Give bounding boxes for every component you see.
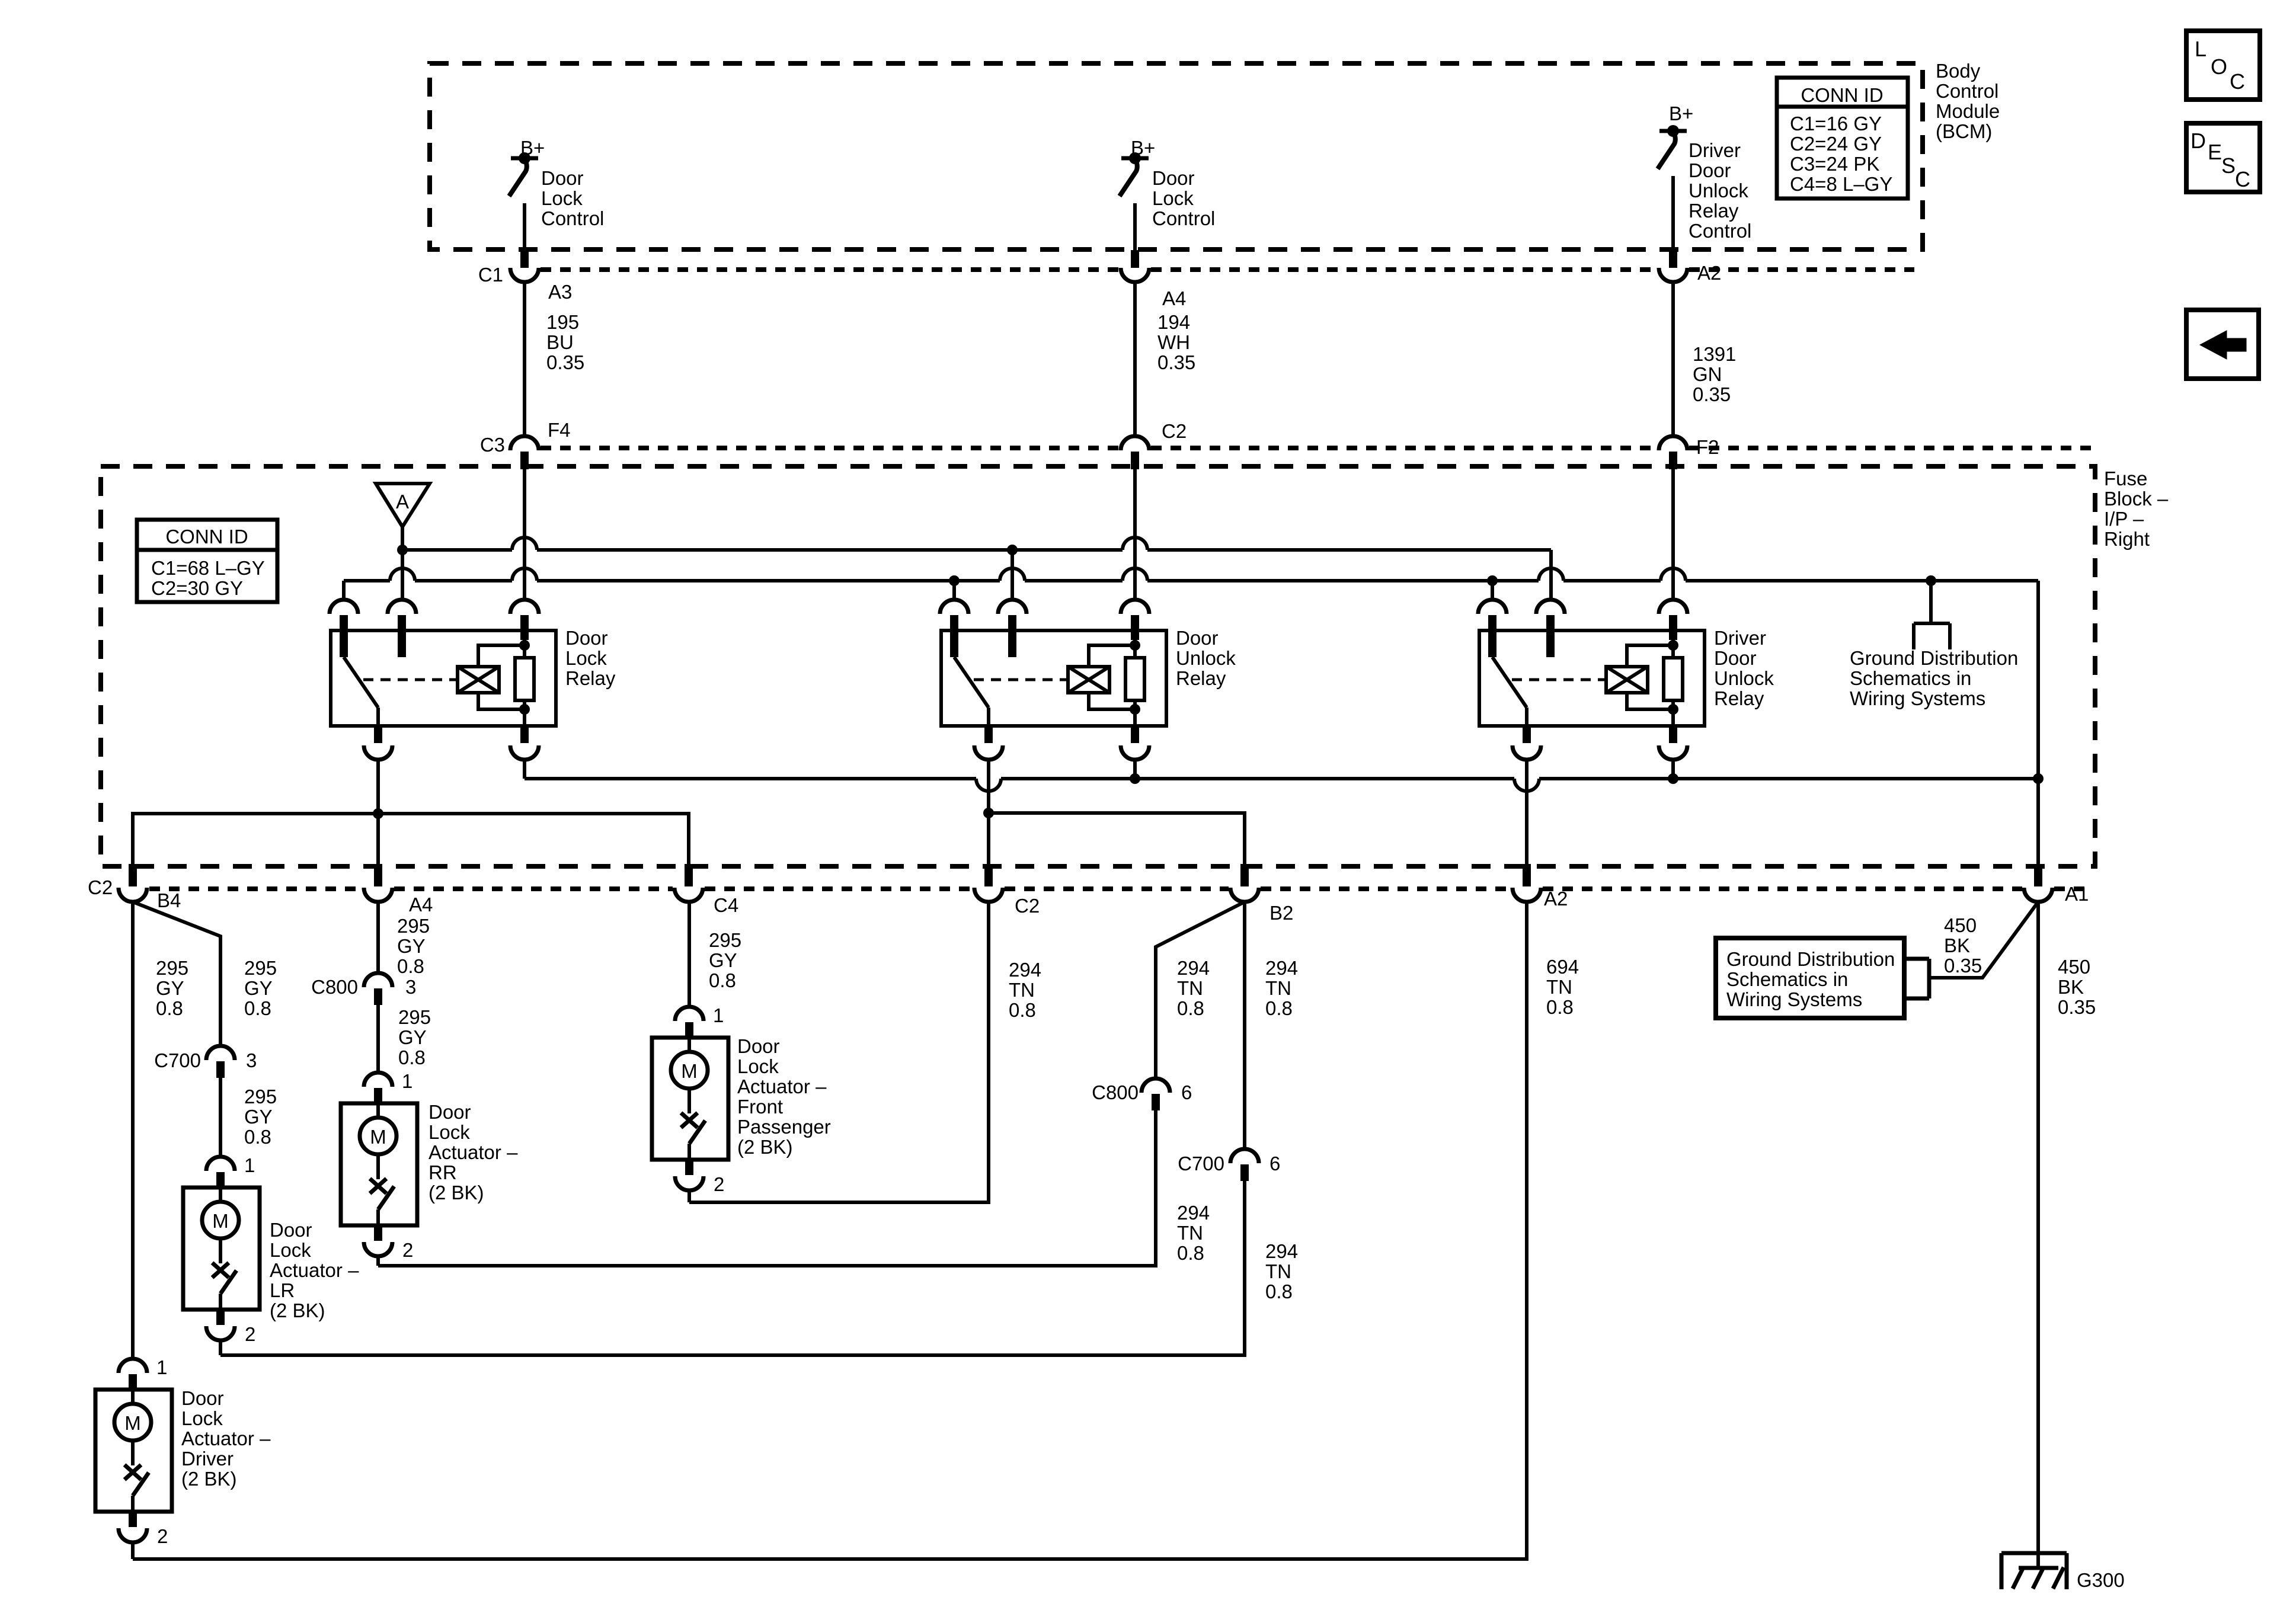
node: bus2 to relay2 pin1 — [949, 575, 960, 586]
svg-text:0.8: 0.8 — [1177, 1242, 1204, 1264]
svg-text:295: 295 — [397, 915, 430, 937]
svg-text:Door: Door — [565, 627, 608, 649]
wire branch C2/B4 riser — [133, 814, 378, 866]
svg-text:GY: GY — [156, 977, 184, 999]
wire bus2 right end down to A1 feeder — [2036, 581, 2040, 866]
svg-text:C2: C2 — [1162, 420, 1187, 442]
svg-text:(BCM): (BCM) — [1936, 120, 1992, 142]
svg-text:0.35: 0.35 — [546, 351, 584, 373]
svg-text:1391: 1391 — [1693, 343, 1736, 365]
svg-text:Actuator –: Actuator – — [270, 1259, 359, 1281]
node: bus3 relay3 coil — [1668, 773, 1678, 784]
wire col3 F2 to Driver Door Unlock Relay coil — [1671, 469, 1675, 600]
svg-text:Front: Front — [737, 1096, 783, 1118]
connector pin B2 (fuse bottom) — [1240, 864, 1249, 886]
svg-text:C2: C2 — [1015, 895, 1040, 917]
svg-text:0.8: 0.8 — [397, 955, 424, 977]
wire bus 2 (relay common) — [344, 579, 390, 582]
svg-text:2: 2 — [402, 1239, 413, 1261]
svg-text:Unlock: Unlock — [1176, 647, 1236, 669]
svg-text:Relay: Relay — [1176, 667, 1226, 689]
svg-text:(2 BK): (2 BK) — [737, 1136, 793, 1158]
connector C4 pin A2 (BCM bottom, col 3) — [1669, 250, 1677, 268]
svg-text:TN: TN — [1177, 1222, 1203, 1244]
wire 694 TN 0.8 (A2 to driver pin2 bus) — [133, 902, 1527, 1559]
svg-text:BK: BK — [1944, 934, 1970, 956]
svg-text:TN: TN — [1265, 977, 1291, 999]
svg-text:Body: Body — [1936, 60, 1981, 82]
svg-text:0.35: 0.35 — [2058, 996, 2096, 1018]
svg-text:Lock: Lock — [1152, 187, 1194, 209]
svg-text:Door: Door — [181, 1387, 224, 1409]
BCM C1/C2/C4 connector dotted line — [541, 267, 1119, 272]
svg-text:Relay: Relay — [1714, 687, 1764, 709]
Body Control Module (BCM) dashed box — [430, 63, 1923, 249]
node: bus3 to A1 feeder — [2033, 773, 2044, 784]
svg-text:295: 295 — [244, 957, 277, 979]
svg-text:Actuator –: Actuator – — [181, 1427, 271, 1449]
svg-text:0.8: 0.8 — [1009, 999, 1036, 1021]
svg-text:3: 3 — [405, 976, 416, 998]
connector pin C2 (fuse bottom) — [984, 864, 993, 886]
svg-text:694: 694 — [1546, 956, 1579, 978]
svg-text:BK: BK — [2058, 976, 2084, 998]
svg-text:C4=8 L–GY: C4=8 L–GY — [1790, 173, 1892, 195]
connector C2 pin A4 (BCM bottom, col 2) — [1131, 250, 1139, 268]
svg-text:(2 BK): (2 BK) — [270, 1299, 325, 1321]
svg-text:450: 450 — [1944, 914, 1977, 936]
node: bus2 to relay3 pin1 — [1487, 575, 1498, 586]
node: relay1 output junction — [373, 808, 383, 819]
svg-text:195: 195 — [546, 311, 579, 333]
connector C700 pin 6 — [1230, 1149, 1259, 1163]
svg-text:Door: Door — [1152, 167, 1195, 189]
wire relay2 coil bottom drop — [1133, 760, 1137, 779]
fuse top connector dotted line — [541, 446, 1119, 450]
svg-text:Door: Door — [541, 167, 584, 189]
wire 295 GY 0.8 (driver branch) — [131, 902, 135, 1359]
wire RR actuator pin2 down — [376, 1256, 380, 1266]
connector C2 pin B4 (fuse bottom) — [129, 864, 137, 886]
svg-text:M: M — [124, 1412, 141, 1434]
svg-text:Actuator –: Actuator – — [428, 1141, 518, 1163]
svg-text:Unlock: Unlock — [1714, 667, 1774, 689]
connector C1 pin A3 (BCM bottom, col 1) — [520, 250, 529, 268]
svg-text:GY: GY — [244, 1106, 273, 1128]
svg-text:C700: C700 — [1178, 1153, 1224, 1174]
DESC icon box — [2186, 123, 2260, 192]
svg-text:GY: GY — [709, 949, 737, 971]
svg-text:Block –: Block – — [2104, 488, 2169, 510]
svg-text:Right: Right — [2104, 528, 2150, 550]
svg-text:1: 1 — [713, 1004, 724, 1026]
svg-text:0.8: 0.8 — [1265, 1281, 1293, 1302]
node: junction triangle A / bus 1 — [397, 545, 408, 555]
svg-text:S: S — [2221, 153, 2236, 178]
svg-text:0.8: 0.8 — [398, 1046, 426, 1068]
connector pin C4 (fuse bottom) — [685, 864, 693, 886]
wire driver actuator pin2 to bus — [131, 1542, 135, 1559]
connector C800 pin 3 — [364, 973, 392, 987]
svg-text:C1=16 GY: C1=16 GY — [1790, 113, 1882, 135]
svg-text:L: L — [2195, 37, 2207, 61]
wire bus 1 (relay feed) — [402, 548, 512, 552]
wire branch to B2 — [989, 813, 1245, 866]
wire 195 BU 0.35 — [523, 282, 526, 437]
svg-text:GN: GN — [1693, 363, 1722, 385]
wire bus 3 (coil return) — [525, 777, 976, 780]
svg-text:LR: LR — [270, 1279, 295, 1301]
wire 294 TN 0.8 (C800-6 to RR pin2) — [378, 1110, 1156, 1266]
svg-text:194: 194 — [1157, 311, 1190, 333]
svg-text:WH: WH — [1157, 331, 1190, 353]
svg-text:CONN ID: CONN ID — [1801, 84, 1883, 106]
svg-text:B4: B4 — [157, 889, 181, 911]
fuse CONN ID table box — [137, 520, 277, 602]
svg-text:A4: A4 — [1162, 287, 1186, 309]
svg-text:294: 294 — [1265, 1240, 1298, 1262]
ground distribution bracket (bottom) — [1904, 957, 1929, 961]
connector C800 pin 6 — [1141, 1078, 1170, 1093]
node: bus3 relay2 coil — [1130, 773, 1140, 784]
wire 294 TN 0.8 (B2 to C700-6) — [1243, 902, 1246, 1149]
Fuse Block - I/P - Right dashed box — [101, 466, 2095, 866]
wire 295 GY 0.8 (C700 to LR) — [219, 1078, 222, 1157]
svg-text:294: 294 — [1177, 1202, 1210, 1224]
svg-text:C3=24 PK: C3=24 PK — [1790, 153, 1879, 175]
wire FP actuator pin2 down — [687, 1190, 691, 1202]
connector pin A2 (fuse bottom) — [1523, 864, 1531, 886]
motor M4 Door Lock Actuator - Driver — [119, 1359, 147, 1373]
svg-text:Schematics in: Schematics in — [1850, 667, 1971, 689]
svg-text:C3: C3 — [480, 434, 505, 456]
svg-text:Lock: Lock — [428, 1121, 470, 1143]
wire 294 TN 0.8 (C700-6 to LR pin2) — [220, 1181, 1245, 1355]
svg-text:6: 6 — [1181, 1081, 1192, 1103]
svg-text:Wiring Systems: Wiring Systems — [1726, 988, 1862, 1010]
svg-text:C: C — [2230, 69, 2245, 94]
svg-text:295: 295 — [709, 929, 741, 951]
svg-text:2: 2 — [714, 1173, 724, 1195]
svg-text:C800: C800 — [311, 976, 358, 998]
svg-text:294: 294 — [1009, 959, 1041, 981]
svg-text:C2: C2 — [88, 876, 113, 898]
svg-text:Passenger: Passenger — [737, 1116, 831, 1138]
node: relay2 output junction — [983, 808, 994, 818]
wire relay1 coil bottom to bus3 — [523, 760, 526, 779]
wire bus1 corner drop to relay3 pin2 — [1549, 550, 1553, 600]
svg-text:Door: Door — [1714, 647, 1757, 669]
svg-text:0.8: 0.8 — [244, 997, 271, 1019]
wire col2 C2 to Door Unlock Relay coil — [1133, 469, 1137, 600]
svg-text:C2=24 GY: C2=24 GY — [1790, 133, 1882, 155]
ground distribution schematics box (bottom) — [1716, 938, 1904, 1018]
svg-text:F2: F2 — [1696, 436, 1719, 458]
LOC icon box — [2186, 31, 2260, 100]
connector pin A1 (fuse bottom) — [2034, 864, 2042, 886]
svg-text:6: 6 — [1269, 1153, 1280, 1174]
connector C700 pin 3 — [206, 1046, 235, 1060]
svg-text:Driver: Driver — [1714, 627, 1766, 649]
svg-text:F4: F4 — [548, 419, 571, 441]
svg-text:Relay: Relay — [565, 667, 616, 689]
svg-text:C4: C4 — [714, 894, 738, 916]
svg-text:Door: Door — [1176, 627, 1219, 649]
svg-text:Ground Distribution: Ground Distribution — [1850, 647, 2018, 669]
svg-text:295: 295 — [156, 957, 188, 979]
svg-text:Lock: Lock — [270, 1239, 311, 1261]
svg-text:1: 1 — [402, 1070, 412, 1092]
svg-text:Driver: Driver — [181, 1448, 234, 1470]
motor M3 Door Lock Actuator - Front Passenger — [675, 1007, 703, 1021]
wire bus1 drop to relay2 pin2 — [1011, 550, 1014, 600]
motor M1 Door Lock Actuator - LR — [206, 1157, 235, 1171]
svg-text:Lock: Lock — [181, 1407, 223, 1429]
svg-text:0.35: 0.35 — [1157, 351, 1195, 373]
svg-text:GY: GY — [244, 977, 273, 999]
wire bus2 left end to relay1 pin1 — [342, 581, 346, 600]
svg-text:Lock: Lock — [565, 647, 607, 669]
svg-text:O: O — [2211, 55, 2227, 79]
svg-text:0.8: 0.8 — [709, 969, 736, 991]
svg-text:Control: Control — [1689, 220, 1751, 242]
connector C3 pin F4 (fuse top, col 1) — [510, 436, 539, 450]
wire relay1 output down — [376, 760, 380, 866]
svg-text:1: 1 — [156, 1356, 167, 1378]
svg-text:294: 294 — [1177, 957, 1210, 979]
svg-text:C700: C700 — [154, 1049, 201, 1071]
svg-text:TN: TN — [1265, 1260, 1291, 1282]
wire bus2 drop relay3 pin1 — [1491, 581, 1494, 600]
svg-text:0.8: 0.8 — [244, 1126, 271, 1148]
svg-text:C2=30 GY: C2=30 GY — [151, 577, 243, 599]
svg-text:C: C — [2235, 167, 2250, 191]
svg-text:Door: Door — [737, 1035, 780, 1057]
svg-text:Driver: Driver — [1689, 139, 1741, 161]
wire relay2 output down — [987, 760, 990, 866]
svg-text:C1=68 L–GY: C1=68 L–GY — [151, 557, 265, 579]
wire 295 GY 0.8 (C4 down) — [687, 902, 691, 1007]
relay K3 Driver Door Unlock Relay — [1479, 630, 1705, 726]
svg-text:I/P –: I/P – — [2104, 508, 2144, 530]
svg-text:Wiring Systems: Wiring Systems — [1850, 687, 1985, 709]
svg-text:(2 BK): (2 BK) — [428, 1182, 484, 1204]
svg-text:A: A — [396, 491, 409, 513]
svg-text:Door: Door — [1689, 159, 1731, 181]
BCM CONN ID table box — [1777, 78, 1908, 199]
svg-text:295: 295 — [244, 1086, 277, 1108]
svg-text:0.35: 0.35 — [1944, 955, 1982, 977]
wire LR actuator pin2 down — [219, 1340, 222, 1355]
svg-text:Relay: Relay — [1689, 200, 1739, 222]
svg-text:GY: GY — [397, 935, 426, 957]
svg-text:RR: RR — [428, 1161, 457, 1183]
relay K1 Door Lock Relay — [331, 630, 556, 726]
svg-text:A3: A3 — [548, 281, 572, 303]
svg-text:M: M — [681, 1060, 698, 1082]
svg-text:Door: Door — [270, 1219, 312, 1241]
svg-text:Lock: Lock — [737, 1055, 779, 1077]
svg-text:3: 3 — [246, 1049, 257, 1071]
relay K2 Door Unlock Relay — [941, 630, 1166, 726]
wire 294 TN 0.8 (B2 to C800-6) — [1156, 902, 1245, 1078]
svg-text:Actuator –: Actuator – — [737, 1076, 827, 1097]
svg-text:A1: A1 — [2065, 883, 2089, 905]
svg-text:G300: G300 — [2077, 1569, 2125, 1591]
svg-text:Fuse: Fuse — [2104, 468, 2147, 489]
svg-text:Control: Control — [541, 207, 604, 229]
wire 294 TN 0.8 (C2 down) — [689, 902, 989, 1202]
svg-text:2: 2 — [157, 1525, 168, 1547]
ground distribution off-page reference bracket — [1929, 581, 1933, 623]
node: bus2 to ground reference — [1926, 575, 1936, 586]
svg-text:0.8: 0.8 — [156, 997, 183, 1019]
power feed triangle A — [376, 484, 430, 527]
svg-text:BU: BU — [546, 331, 574, 353]
svg-text:M: M — [370, 1126, 386, 1148]
svg-text:1: 1 — [244, 1154, 255, 1176]
ground G300 symbol — [2001, 1551, 2067, 1555]
svg-text:2: 2 — [245, 1323, 255, 1345]
connector pin F2 (fuse top, col 3) — [1659, 436, 1687, 450]
wire 295 GY 0.8 (LR branch) — [133, 902, 220, 1046]
wire col1 C3 to Door Lock Relay coil — [523, 469, 526, 600]
svg-text:0.8: 0.8 — [1546, 996, 1574, 1018]
svg-text:A2: A2 — [1544, 888, 1568, 910]
svg-text:Unlock: Unlock — [1689, 180, 1748, 201]
svg-text:GY: GY — [398, 1026, 427, 1048]
svg-text:Door: Door — [428, 1101, 471, 1123]
wire triangle A to relay 1 pin 2 — [401, 527, 404, 600]
wire 194 WH 0.35 — [1133, 282, 1137, 437]
connector pin A4 (fuse bottom) — [374, 864, 382, 886]
svg-text:TN: TN — [1177, 977, 1203, 999]
svg-text:M: M — [212, 1210, 229, 1232]
svg-text:D: D — [2191, 129, 2206, 153]
wire 450 BK 0.35 (A1 to ground distribution) — [1929, 902, 2038, 978]
svg-text:C1: C1 — [478, 264, 503, 286]
wire 450 BK 0.35 (A1 to G300) — [2036, 902, 2040, 1570]
motor M2 Door Lock Actuator - RR — [364, 1073, 392, 1087]
connector C2 (fuse top, col 2) — [1121, 436, 1149, 450]
svg-text:0.35: 0.35 — [1693, 383, 1731, 405]
svg-text:(2 BK): (2 BK) — [181, 1468, 237, 1490]
svg-text:E: E — [2208, 140, 2222, 164]
back arrow icon box — [2186, 310, 2259, 379]
wire 1391 GN 0.35 — [1671, 282, 1675, 437]
wire bus2 drop relay2 pin1 — [952, 581, 956, 600]
node: bus1 to relay2 pin2 — [1007, 545, 1018, 555]
svg-text:B2: B2 — [1269, 902, 1293, 924]
svg-text:A2: A2 — [1697, 262, 1721, 284]
svg-text:450: 450 — [2058, 956, 2090, 978]
fuse bottom connector dotted line — [149, 886, 362, 891]
svg-text:Lock: Lock — [541, 187, 583, 209]
svg-text:A4: A4 — [409, 894, 433, 916]
svg-text:0.8: 0.8 — [1177, 997, 1204, 1019]
svg-text:0.8: 0.8 — [1265, 997, 1293, 1019]
wire relay3 output down — [1525, 760, 1528, 866]
svg-text:Ground Distribution: Ground Distribution — [1726, 948, 1895, 970]
wire branch to C4 — [378, 814, 689, 866]
svg-text:Schematics in: Schematics in — [1726, 968, 1848, 990]
svg-text:Module: Module — [1936, 100, 2000, 122]
svg-text:Control: Control — [1152, 207, 1215, 229]
wire relay3 coil bottom drop — [1671, 760, 1675, 779]
svg-text:294: 294 — [1265, 957, 1298, 979]
svg-text:CONN ID: CONN ID — [165, 526, 248, 548]
wire 295 GY 0.8 (C800 to RR) — [376, 1005, 380, 1073]
svg-text:TN: TN — [1546, 976, 1572, 998]
svg-text:295: 295 — [398, 1006, 431, 1028]
svg-text:B+: B+ — [1669, 103, 1693, 124]
svg-text:TN: TN — [1009, 979, 1035, 1001]
svg-text:C800: C800 — [1092, 1081, 1139, 1103]
wire 295 GY 0.8 (A4 down) — [376, 902, 380, 973]
svg-text:Control: Control — [1936, 80, 1998, 102]
